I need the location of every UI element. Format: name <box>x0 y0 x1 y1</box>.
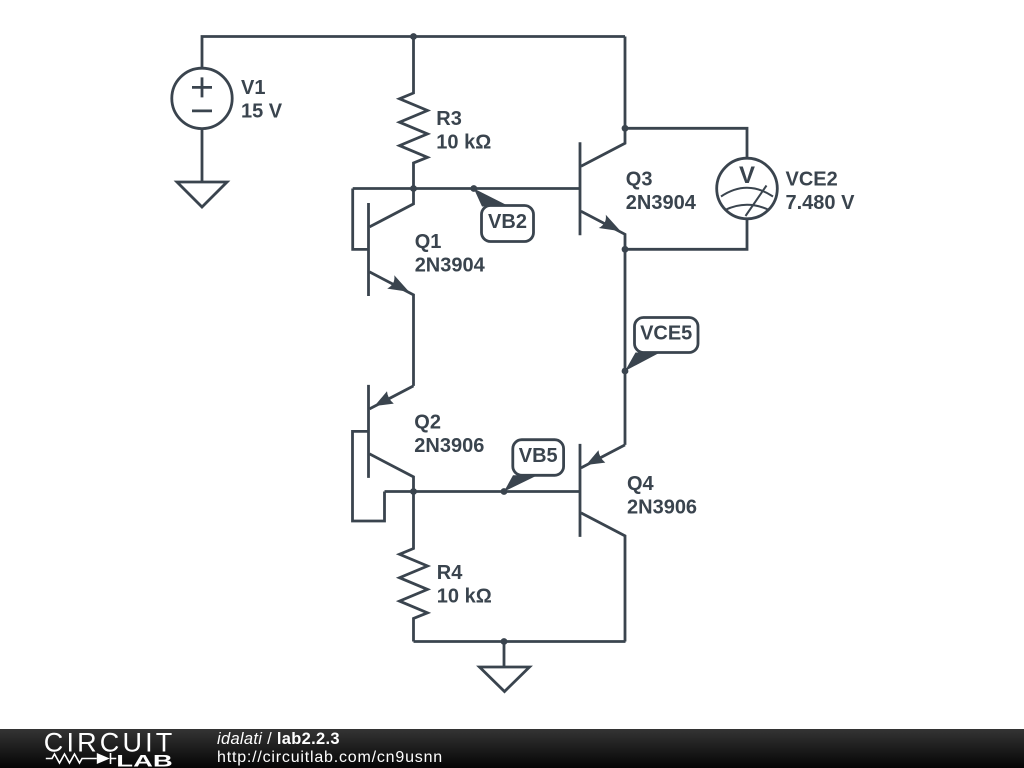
wire mid rail (bases of Q1/Q3, VB2 net) <box>353 187 580 190</box>
svg-text:Q42N3906: Q42N3906 <box>627 473 697 519</box>
svg-text:R410 kΩ: R410 kΩ <box>437 562 492 608</box>
node junction top rail / R3 <box>410 33 417 40</box>
wire bottom rail <box>414 640 626 643</box>
transistor Q4 <box>580 444 625 551</box>
transistor Q2 <box>369 385 414 492</box>
svg-text:VCE27.480 V: VCE27.480 V <box>786 169 856 215</box>
wire Q4 collector to bottom rail <box>624 551 627 642</box>
ground (V1) <box>177 182 227 207</box>
resistor R4 <box>400 492 428 642</box>
node VB2 probe point <box>470 185 477 192</box>
svg-text:VCE5: VCE5 <box>640 323 692 345</box>
node VB5 probe point <box>501 488 508 495</box>
node Q3 emitter / voltmeter <box>622 246 629 253</box>
CircuitLab logo <box>0 729 260 768</box>
node R3 / Q1 collector <box>410 185 417 192</box>
svg-text:LAB: LAB <box>116 751 173 768</box>
voltage source V1 <box>172 68 232 128</box>
wire V1 to ground <box>201 129 204 182</box>
wire VB5 rail <box>385 490 581 493</box>
node ground junction <box>501 638 508 645</box>
wire Q1 base loop <box>353 189 369 250</box>
probe VCE5 <box>625 318 698 372</box>
probe VB2 <box>474 189 534 242</box>
voltmeter VCE2 <box>625 128 777 249</box>
svg-text:Q12N3904: Q12N3904 <box>415 231 486 276</box>
resistor R3 <box>400 37 428 189</box>
svg-text:VB2: VB2 <box>488 211 527 233</box>
wire Q2 base loop <box>353 431 385 521</box>
transistor Q3 <box>580 128 625 249</box>
wire Q3 emitter to Q4 emitter (VCE5 net) <box>624 249 627 445</box>
wire top rail <box>202 37 625 69</box>
node VCE5 probe point <box>622 368 629 375</box>
svg-text:R310 kΩ: R310 kΩ <box>436 108 491 153</box>
wire Q3 collector to top rail <box>624 37 627 129</box>
svg-text:V115 V: V115 V <box>241 77 283 123</box>
svg-text:VB5: VB5 <box>519 445 558 467</box>
svg-text:Q22N3906: Q22N3906 <box>414 411 484 457</box>
wire Q1 emitter to Q2 emitter <box>412 310 415 386</box>
svg-text:V: V <box>739 162 755 189</box>
node Q3 collector / voltmeter <box>622 125 629 132</box>
node Q2 collector / R4 <box>410 488 417 495</box>
svg-text:Q32N3904: Q32N3904 <box>626 169 697 215</box>
footer bar <box>0 729 1024 768</box>
probe VB5 <box>504 440 564 492</box>
ground (bottom) <box>480 642 530 692</box>
transistor Q1 <box>369 189 414 311</box>
